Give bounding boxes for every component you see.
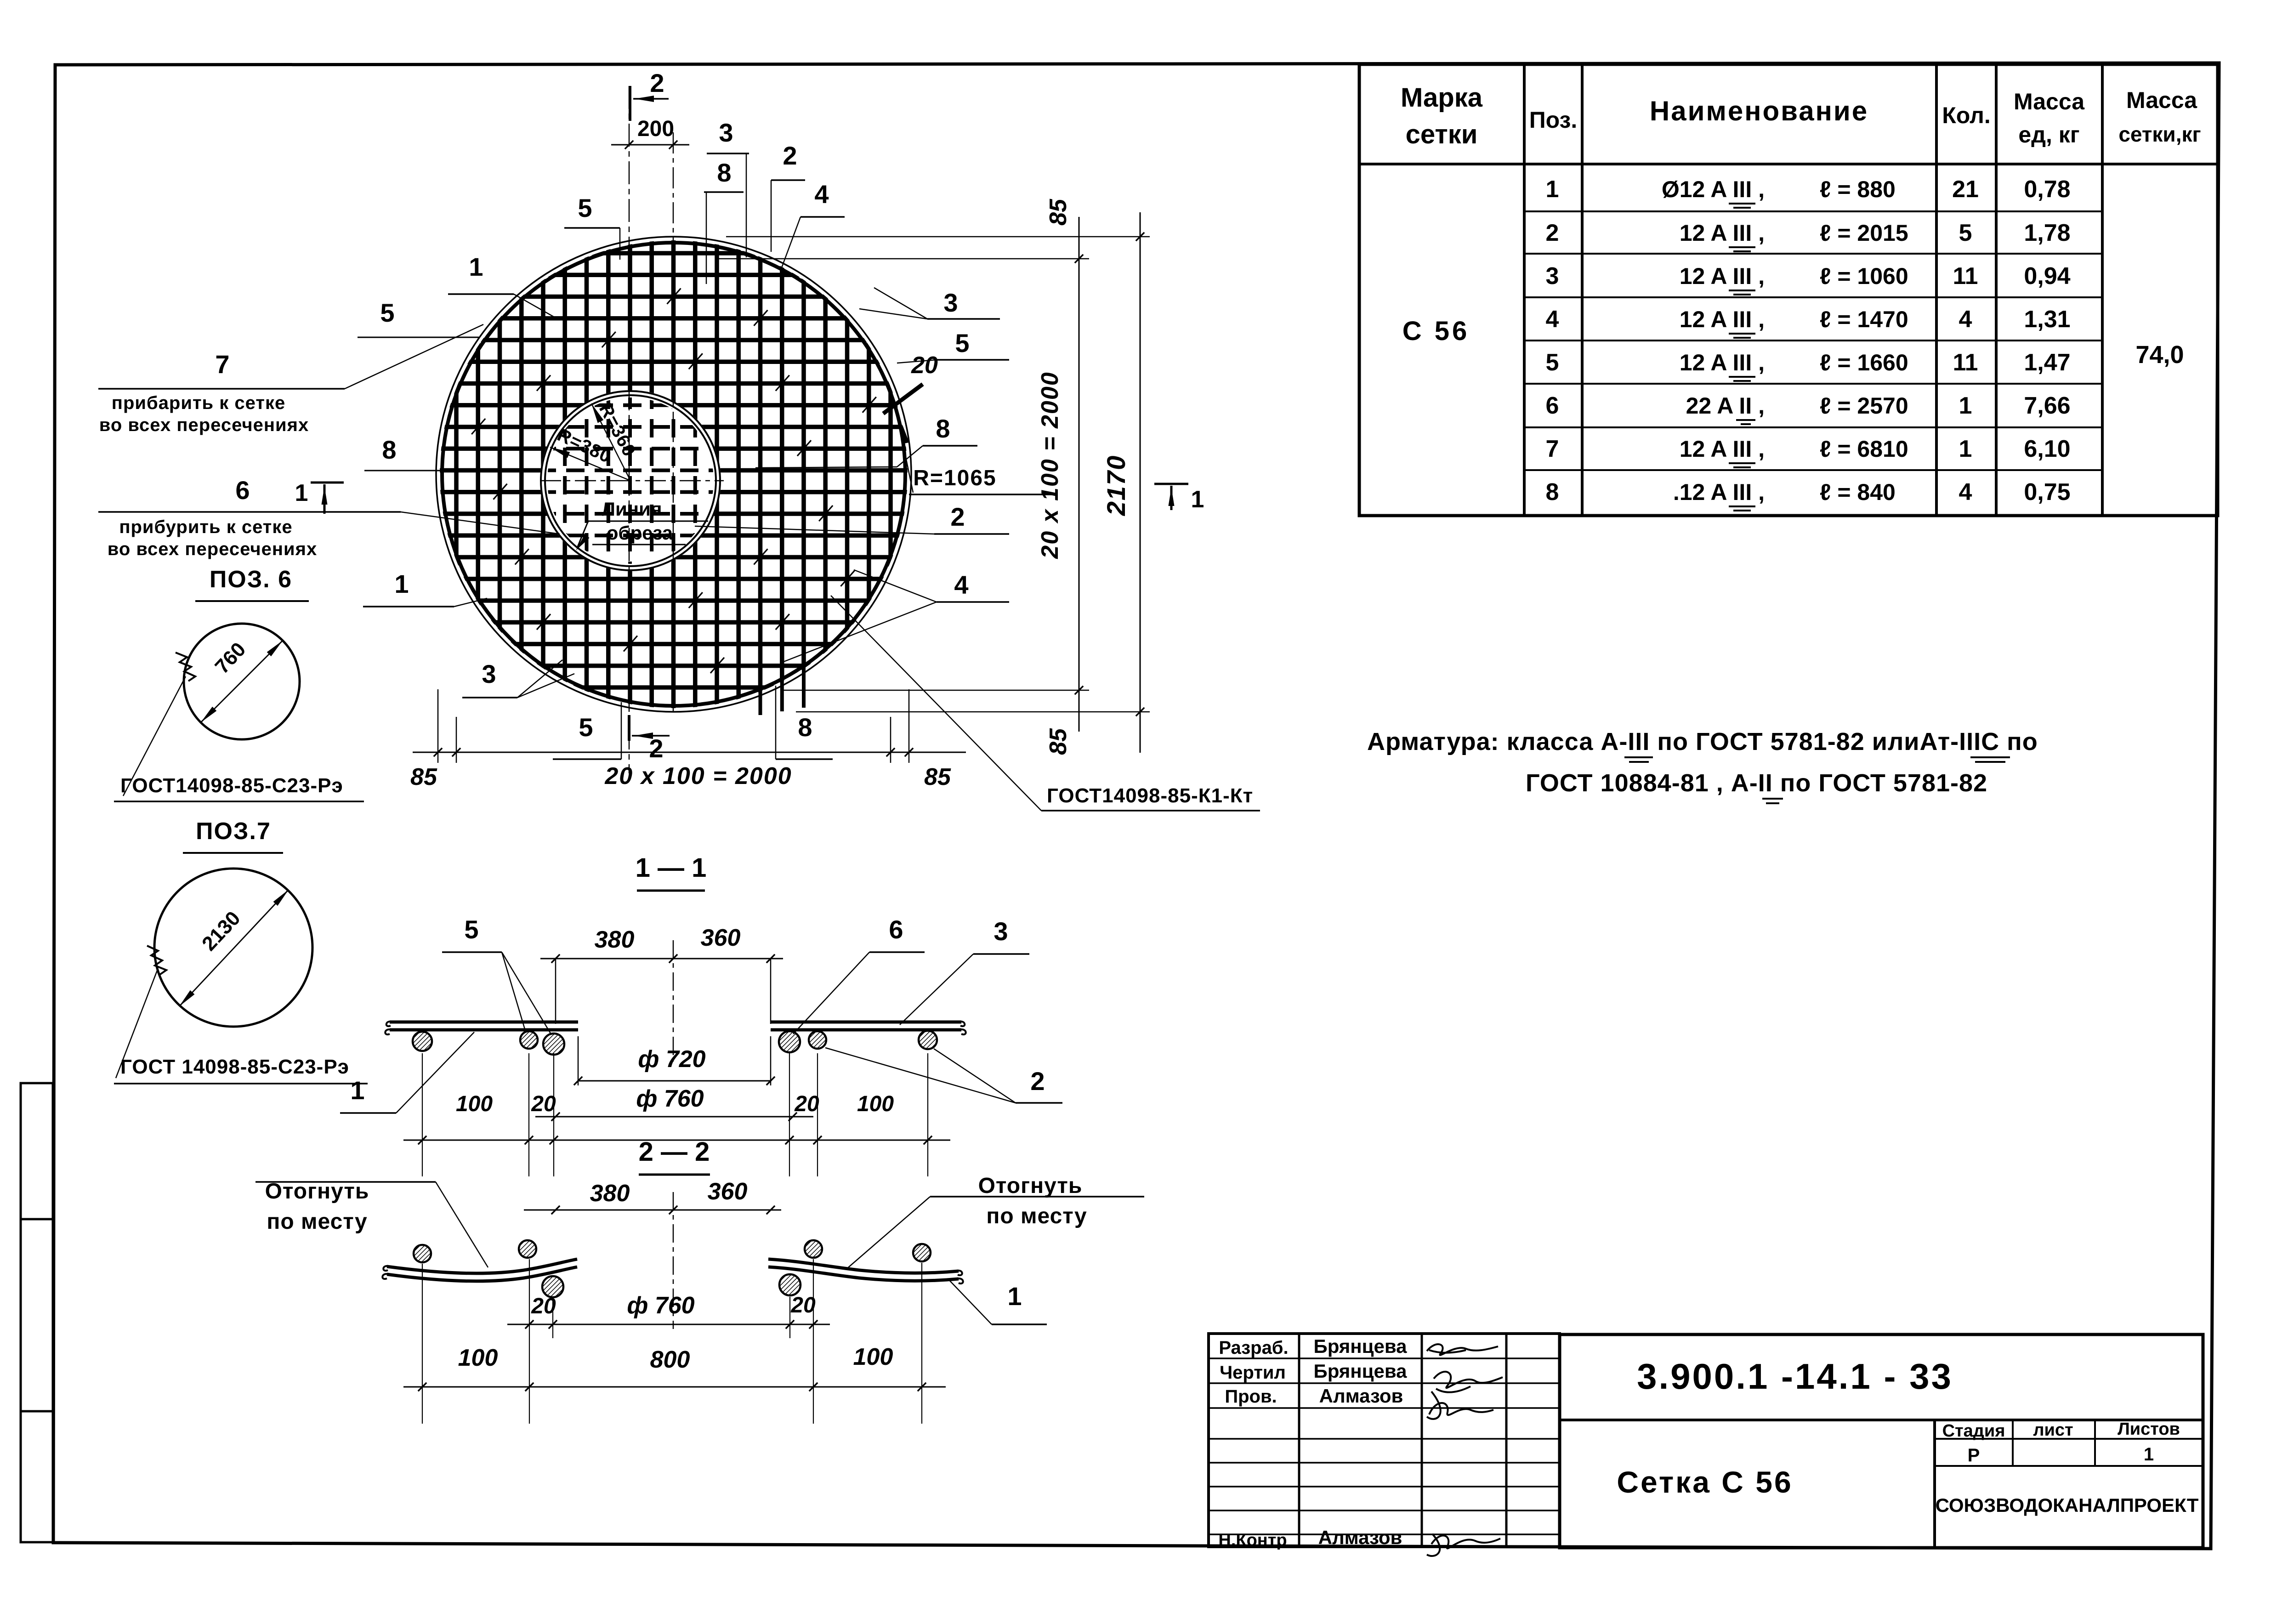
svg-text:1: 1 [469,252,483,281]
svg-text:ф 720: ф 720 [638,1046,705,1073]
svg-text:4: 4 [814,180,829,209]
POZ.7 diameter arrow 2130 [179,890,289,1006]
svg-text:360: 360 [708,1178,748,1205]
svg-text:5: 5 [464,915,478,944]
svg-text:200: 200 [637,117,674,141]
svg-text:3: 3 [1546,263,1559,290]
svg-text:Стадия: Стадия [1942,1421,2005,1441]
svg-text:20: 20 [531,1092,556,1116]
title block small table [1209,1334,1560,1547]
svg-text:ℓ = 1660: ℓ = 1660 [1820,350,1908,375]
svg-text:3: 3 [719,118,733,147]
svg-text:1: 1 [1959,436,1972,462]
svg-text:3: 3 [994,917,1008,946]
svg-text:ГОСТ14098-85-К1-Кт: ГОСТ14098-85-К1-Кт [1047,784,1253,807]
svg-text:Поз.: Поз. [1529,107,1578,133]
svg-text:800: 800 [650,1346,690,1373]
2-2 rebar section circles [414,1245,431,1262]
svg-text:.12 A III ,: .12 A III , [1673,479,1765,505]
mesh vertical centre line [673,132,674,715]
svg-text:Марка: Марка [1401,83,1483,113]
svg-text:20: 20 [531,1294,556,1318]
svg-text:7: 7 [1546,436,1559,462]
radius arrow R=380 [550,447,630,481]
section line 2-2 (dash-dot vertical) [629,86,630,773]
svg-text:ℓ = 2570: ℓ = 2570 [1820,393,1908,419]
svg-text:2: 2 [1030,1067,1045,1096]
cut line note (Линия обреза) [588,521,708,522]
svg-text:5: 5 [380,298,394,327]
svg-text:ед, кг: ед, кг [2018,122,2079,148]
POZ.6 leader to GOST label [123,676,186,796]
svg-text:0,78: 0,78 [2024,176,2070,203]
svg-text:100: 100 [458,1345,498,1371]
svg-text:ф 760: ф 760 [636,1085,704,1112]
svg-text:сетки: сетки [1406,119,1478,149]
svg-text:380: 380 [590,1180,630,1207]
svg-text:6: 6 [889,915,903,944]
svg-text:7,66: 7,66 [2024,392,2070,419]
svg-text:20: 20 [790,1293,816,1317]
svg-text:Масса: Масса [2126,87,2197,113]
stadia list listov sub table [1935,1438,2203,1440]
svg-text:12 A III ,: 12 A III , [1680,436,1765,462]
svg-text:6: 6 [235,476,250,505]
mesh ring bar 7 (heavy circle) [442,243,905,706]
POZ.7 weld zigzag [147,946,166,975]
svg-text:ПОЗ.7: ПОЗ.7 [196,818,271,845]
svg-text:1: 1 [394,569,409,598]
1-1 rebar section circles [413,1032,432,1051]
svg-text:ГОСТ 10884-81 , А-II по ГОС: ГОСТ 10884-81 , А-II по ГОСТ 5781-82 [1526,769,1987,797]
svg-text:7: 7 [215,350,229,379]
svg-text:ГОСТ14098-85-С23-Рэ: ГОСТ14098-85-С23-Рэ [120,774,343,797]
svg-text:Брянцева: Брянцева [1314,1335,1408,1357]
svg-text:5: 5 [579,713,593,742]
detail POZ.7 ring circle [154,869,312,1027]
svg-text:1: 1 [350,1076,364,1105]
svg-text:5: 5 [955,329,969,358]
bottom dimension chain 85 / 20x100=2000 / 85 [413,752,966,753]
POZ.6 weld zigzag [176,653,195,681]
svg-text:20 х 100 = 2000: 20 х 100 = 2000 [1037,371,1063,559]
svg-text:0,75: 0,75 [2024,479,2070,505]
svg-text:8: 8 [1546,479,1559,505]
svg-text:во всех пересечениях: во всех пересечениях [99,415,309,435]
svg-text:ℓ = 6810: ℓ = 6810 [1820,436,1908,462]
1-1 right mesh bar (flat) [771,1021,961,1024]
svg-text:5: 5 [578,193,592,222]
svg-text:85: 85 [410,764,437,790]
svg-text:Линия: Линия [602,498,662,520]
svg-text:ГОСТ 14098-85-С23-Рэ: ГОСТ 14098-85-С23-Рэ [120,1056,349,1078]
svg-text:85: 85 [1045,199,1072,226]
svg-text:12 A III ,: 12 A III , [1680,307,1765,332]
svg-text:1: 1 [1007,1282,1022,1311]
svg-text:8: 8 [798,713,812,742]
svg-text:0,94: 0,94 [2024,263,2070,290]
svg-text:по месту: по месту [986,1204,1087,1228]
svg-text:4: 4 [1959,479,1972,505]
svg-text:1,47: 1,47 [2024,349,2070,376]
svg-text:1: 1 [1546,176,1559,203]
svg-text:5: 5 [1959,220,1972,246]
svg-text:360: 360 [701,925,741,951]
signatures [1427,1344,1498,1355]
svg-text:1 — 1: 1 — 1 [636,853,707,883]
detail POZ.6 ring circle [184,624,300,739]
svg-text:100: 100 [456,1092,493,1116]
title block main [1560,1334,2203,1548]
mesh horizontal bars (positions 1,4,5) [0,251,1195,256]
svg-text:100: 100 [853,1344,893,1370]
2-2 left mesh bar (bent) [387,1259,577,1273]
svg-text:2: 2 [950,502,965,531]
section mark 1 right [1154,483,1188,485]
svg-text:4: 4 [1546,306,1559,333]
svg-text:Отогнуть: Отогнуть [265,1179,369,1204]
svg-text:Алмазов: Алмазов [1318,1527,1402,1548]
svg-text:Н.Контр: Н.Контр [1218,1531,1287,1550]
svg-text:8: 8 [936,414,950,443]
svg-text:4: 4 [954,570,968,599]
svg-text:С 56: С 56 [1402,316,1470,346]
svg-text:прибурить к сетке: прибурить к сетке [119,517,292,537]
svg-text:R=1065: R=1065 [913,466,996,490]
svg-text:Наименование: Наименование [1650,96,1868,126]
svg-text:3.900.1 -14.1 - 33: 3.900.1 -14.1 - 33 [1637,1356,1953,1397]
svg-text:по месту: по месту [267,1209,367,1234]
svg-text:11: 11 [1953,263,1978,290]
section mark 2 top [629,86,631,121]
POZ.7 leader to GOST label [116,971,157,1078]
svg-text:1: 1 [2144,1444,2154,1465]
svg-text:Арматура: класса А-III по ГО: Арматура: класса А-III по ГОСТ 5781-82 и… [1367,728,2038,755]
svg-text:6: 6 [1546,392,1559,419]
svg-text:12 A III ,: 12 A III , [1680,350,1765,375]
svg-text:2: 2 [1546,220,1559,246]
mesh vertical bars (positions 1,2,3,8) [454,0,459,919]
svg-text:1: 1 [1959,392,1972,419]
svg-text:20 х 100 = 2000: 20 х 100 = 2000 [604,763,792,789]
cut line circle [545,395,716,566]
svg-text:380: 380 [595,926,635,953]
svg-text:обреза: обреза [607,522,673,544]
table row lines [1524,210,2102,212]
mesh cut hole [540,390,721,571]
1-1 left mesh bar (flat) [390,1021,578,1024]
svg-text:8: 8 [717,158,731,187]
svg-text:21: 21 [1952,176,1979,203]
svg-text:1,78: 1,78 [2024,220,2070,246]
svg-text:ℓ = 840: ℓ = 840 [1820,479,1896,505]
svg-text:12 A III ,: 12 A III , [1680,263,1765,289]
svg-text:20: 20 [794,1092,819,1116]
svg-text:СОЮЗВОДОКАНАЛПРОЕКТ: СОЮЗВОДОКАНАЛПРОЕКТ [1936,1494,2199,1516]
svg-text:2: 2 [783,141,797,170]
svg-text:Отогнуть: Отогнуть [978,1174,1083,1198]
svg-text:85: 85 [1045,728,1072,755]
ring bar 6 circle [541,391,720,570]
svg-text:2 — 2: 2 — 2 [639,1137,710,1167]
mesh outer edge circle R=1065 [436,237,911,712]
svg-text:во всех пересечениях: во всех пересечениях [108,539,317,559]
svg-text:лист: лист [2033,1420,2073,1440]
svg-text:22 A II ,: 22 A II , [1686,393,1765,419]
left binding boxes [21,1083,53,1542]
svg-text:Листов: Листов [2118,1420,2180,1439]
svg-text:Масса: Масса [2014,89,2085,114]
svg-text:сетки,кг: сетки,кг [2118,122,2201,146]
svg-text:1: 1 [1191,486,1204,513]
svg-text:Сетка С 56: Сетка С 56 [1617,1465,1793,1499]
svg-text:Разраб.: Разраб. [1219,1338,1288,1358]
svg-text:3: 3 [482,659,496,688]
svg-text:Чертил: Чертил [1220,1363,1286,1383]
parts table outline [1359,64,2218,516]
svg-text:12 A III ,: 12 A III , [1680,220,1765,246]
svg-text:2170: 2170 [1101,455,1130,517]
svg-text:ℓ = 1060: ℓ = 1060 [1820,263,1908,289]
svg-text:Ø12 A III ,: Ø12 A III , [1662,176,1765,202]
svg-text:1: 1 [295,480,308,506]
svg-text:Алмазов: Алмазов [1319,1385,1403,1407]
svg-text:20: 20 [911,352,938,379]
svg-text:5: 5 [1546,349,1559,376]
svg-text:Р: Р [1968,1445,1980,1465]
section mark 2 bottom [628,715,630,741]
svg-text:Брянцева: Брянцева [1314,1360,1408,1382]
svg-text:6,10: 6,10 [2024,436,2070,462]
svg-text:ПОЗ. 6: ПОЗ. 6 [210,566,292,593]
svg-text:4: 4 [1959,306,1972,333]
svg-text:3: 3 [943,288,958,317]
svg-text:85: 85 [924,764,951,790]
table header row line [1359,163,2218,165]
hole horizontal centre line [540,480,724,482]
svg-text:ℓ = 2015: ℓ = 2015 [1820,220,1908,246]
svg-text:11: 11 [1953,349,1978,376]
svg-text:2: 2 [650,68,664,97]
dashed bar stubs inside hole [563,391,567,572]
weld tick marks at intersections [471,419,485,434]
svg-text:74,0: 74,0 [2135,341,2184,369]
svg-text:100: 100 [857,1092,894,1116]
svg-text:8: 8 [382,435,396,464]
dimension 2170 vertical [1140,212,1141,753]
svg-text:1,31: 1,31 [2024,306,2070,333]
svg-text:Кол.: Кол. [1942,102,1990,128]
svg-text:Пров.: Пров. [1225,1386,1277,1407]
svg-text:ℓ = 880: ℓ = 880 [1820,176,1896,202]
POZ.6 diameter arrow 760 [201,641,283,722]
2-2 right mesh bar (bent) [768,1259,959,1273]
dimension 20x100=2000 vertical [1079,217,1080,732]
svg-text:2: 2 [649,734,663,763]
right extension lines [726,236,1150,238]
radius arrow R=360 [591,403,630,481]
bar ends poking beyond ring (bottom right) [759,687,762,715]
svg-text:прибарить к сетке: прибарить к сетке [112,393,285,413]
svg-text:ℓ = 1470: ℓ = 1470 [1820,307,1908,332]
svg-text:ф 760: ф 760 [627,1292,694,1319]
